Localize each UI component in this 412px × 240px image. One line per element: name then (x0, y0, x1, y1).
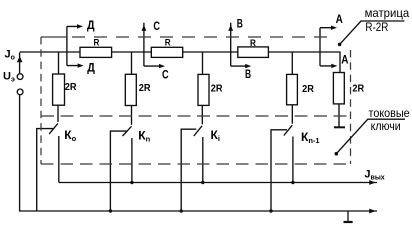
svg-text:Д: Д (87, 60, 95, 74)
junction dot rail1 Kn (130, 181, 133, 184)
svg-text:R: R (94, 38, 100, 49)
svg-text:С: С (162, 67, 169, 81)
dashed box left edge (40, 37, 42, 164)
wire stub node A to 2R4 (291, 52, 293, 74)
resistor 2R2 (125, 74, 136, 105)
switch Kn-1 contact wire (291, 105, 293, 124)
switch Kn-1 left throw wire (271, 130, 287, 211)
dashed box matrix R-2R top edge (72, 36, 332, 38)
switch Ki blade (194, 126, 202, 136)
arrowhead output rail Jvyh (369, 180, 376, 185)
ground symbol at termination (334, 126, 345, 128)
leader dot matrix R-2R (338, 43, 342, 47)
arrowhead node A top (331, 26, 337, 30)
switch Kn right throw wire (131, 138, 133, 183)
svg-text:Д: Д (87, 18, 95, 32)
resistor R3 (238, 47, 269, 58)
wire main rail segment 3 (R2 to R3) (183, 51, 238, 53)
leader dot current switches (335, 152, 339, 156)
junction dot rail2 Ki (180, 209, 183, 212)
junction dot rail2 Kn (109, 209, 112, 212)
wire output rail Jvyh (59, 182, 377, 184)
switch Kn contact wire (131, 106, 133, 125)
resistor 2R1 (53, 74, 65, 105)
terminal circle U2 (17, 89, 23, 95)
wire main rail segment 4 (R3 to termination corner) (268, 52, 340, 73)
svg-text:А: А (336, 12, 343, 26)
junction dot rail1 Kn-1 (291, 181, 294, 184)
wire stub node D to 2R1 (58, 52, 60, 74)
arrowhead node B top (up) (228, 25, 233, 31)
arrowhead node C top (up) (142, 25, 147, 31)
svg-text:В: В (237, 16, 243, 30)
resistor R2 (151, 47, 182, 57)
svg-text:2R: 2R (302, 84, 315, 95)
node C line with arrows (144, 23, 160, 66)
svg-text:матрица: матрица (365, 6, 410, 20)
dashed box matrix R-2R top edge solid start (41, 36, 67, 38)
dashed box current switches bottom edge (41, 163, 352, 165)
svg-text:А: А (341, 52, 348, 66)
dashed box divider between matrix and switches (41, 115, 351, 117)
arrowhead node A bottom (331, 64, 337, 68)
leader line matrix R-2R (340, 21, 405, 44)
wire main rail segment 1 (Jo input to R1) (20, 51, 80, 53)
svg-text:С: С (153, 19, 160, 33)
switch K0 blade (49, 123, 58, 133)
svg-text:2R: 2R (352, 84, 365, 95)
switch K0 contact wire (57, 105, 59, 122)
switch Kn left throw wire (110, 131, 126, 211)
svg-text:токовые: токовые (369, 106, 410, 120)
resistor R1 (80, 47, 112, 57)
arrow input current Jo (19, 53, 21, 74)
svg-text:2R: 2R (211, 83, 224, 94)
dashed box right edge (350, 50, 352, 164)
junction dot rail2 Kn-1 (269, 209, 272, 212)
node D line with arrows (67, 26, 78, 65)
wire ground rail (20, 94, 377, 211)
arrowhead node B bottom (245, 64, 251, 68)
terminal circle U1 (17, 74, 23, 80)
junction dot rail1 Ki (201, 181, 204, 184)
arrowhead node C bottom (159, 64, 165, 68)
svg-text:В: В (245, 67, 251, 81)
svg-text:2R: 2R (139, 83, 152, 94)
svg-text:R-2R: R-2R (365, 20, 388, 34)
switch K0 left throw wire (37, 129, 54, 211)
resistor 2R5 termination (333, 73, 344, 104)
wire stub node B to 2R3 (202, 52, 204, 74)
leader line current switches (336, 119, 405, 154)
arrowhead node D bottom (78, 63, 84, 67)
node B line with arrows (231, 23, 246, 66)
wire main rail segment 2 (R1 to R2) (112, 51, 152, 53)
resistor 2R3 (198, 74, 209, 105)
svg-text:ключи: ключи (371, 119, 401, 133)
wire stub node C to 2R2 (131, 52, 133, 74)
switch Ki left throw wire (181, 129, 196, 211)
switch K0 right throw wire and output rail start (58, 136, 60, 183)
switch Kn blade (123, 126, 132, 136)
svg-text:R: R (250, 38, 256, 49)
svg-text:R: R (165, 37, 171, 48)
switch Ki contact wire (201, 105, 203, 124)
svg-text:2R: 2R (65, 82, 78, 93)
switch Ki right throw wire (202, 137, 204, 183)
ground symbol at ground rail (344, 211, 353, 222)
arrowhead ground rail (369, 209, 376, 214)
node A line with arrows (320, 28, 332, 66)
arrowhead input Jo (up) (17, 56, 23, 62)
resistor 2R4 (287, 74, 298, 104)
switch Kn-1 right throw wire (292, 137, 294, 183)
wire 2R5 bottom to ground (338, 104, 340, 127)
switch Kn-1 blade (284, 125, 293, 135)
arrowhead node D top (77, 24, 83, 28)
